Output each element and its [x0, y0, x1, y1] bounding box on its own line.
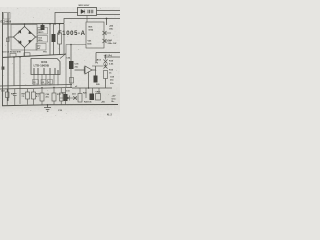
- resistor R08: [26, 92, 30, 99]
- capacitor C09: [64, 94, 68, 101]
- wire left rail: [2, 12, 4, 106]
- zener X2: [103, 39, 107, 43]
- node tap: [106, 19, 108, 26]
- pin label box P1: [33, 80, 39, 85]
- wire C01 leads: [53, 24, 55, 55]
- svg-text:EC3-KB8: EC3-KB8: [1, 21, 12, 24]
- svg-text:MR1 S.RLY: MR1 S.RLY: [79, 5, 91, 7]
- IC inner pin glyphs: [34, 68, 58, 75]
- relay box K1: [78, 8, 97, 16]
- resistor R18b: [104, 71, 108, 79]
- wire left rail 2: [7, 13, 9, 101]
- wire bridge taps: [8, 24, 38, 57]
- svg-text:+B1 (5x): +B1 (5x): [104, 55, 113, 57]
- resistor R15: [70, 78, 74, 84]
- resistor R12: [60, 93, 64, 101]
- resistor R07: [6, 92, 10, 98]
- wire diag: [60, 54, 66, 59]
- box VR1: [96, 94, 101, 101]
- svg-text:LTD-1905B: LTD-1905B: [34, 63, 50, 67]
- bus A: [0, 85, 72, 87]
- wire +B1 rail: [104, 56, 120, 58]
- stub X1: [104, 32, 111, 34]
- diode D1 in relay: [81, 10, 85, 14]
- zener X1: [103, 31, 107, 35]
- coil glyph: [88, 10, 93, 14]
- zener D08: [73, 96, 77, 100]
- scan speckles: [3, 8, 117, 116]
- wire out3: [64, 19, 120, 24]
- bridge enclosure: [11, 25, 37, 51]
- capacitor C04: [13, 89, 17, 106]
- resistor R09: [32, 92, 36, 99]
- text labels: [1, 5, 118, 117]
- paper background: [0, 0, 120, 120]
- wire cap branch: [49, 24, 51, 55]
- svg-text:4.5: 4.5: [42, 81, 45, 84]
- wire IC feed: [13, 57, 15, 86]
- wire drops3: [80, 88, 99, 98]
- wire drops2: [42, 88, 66, 105]
- svg-text:F1005-A: F1005-A: [58, 31, 86, 37]
- zener D05: [104, 60, 108, 64]
- ground: [44, 105, 51, 111]
- stub X2: [104, 40, 111, 42]
- wire +B rail: [96, 52, 120, 54]
- label box C03: [36, 44, 46, 51]
- wire out1: [97, 10, 121, 12]
- switch S02: [24, 53, 30, 57]
- capacitor C10: [90, 94, 95, 101]
- capacitor C01: [52, 34, 56, 42]
- label box D01: [38, 28, 48, 35]
- wire to relay: [55, 13, 78, 25]
- svg-text:VR01: VR01: [96, 92, 102, 94]
- wire zener: [105, 55, 107, 68]
- svg-text:/D02: /D02: [89, 29, 94, 31]
- capacitor C05: [69, 61, 74, 69]
- node dots: [13, 23, 89, 106]
- fuse F1: [41, 25, 45, 30]
- svg-text:CA2: CA2: [108, 39, 113, 42]
- bus B: [0, 88, 72, 90]
- diode D06: [65, 96, 69, 101]
- wire y63: [92, 65, 104, 67]
- capacitor C00 rail: [6, 38, 9, 42]
- pin label box P3: [48, 80, 53, 85]
- IC01 pins: [34, 75, 58, 86]
- pin label box P2: [41, 80, 46, 85]
- resistor R11: [52, 93, 56, 101]
- wire C08: [95, 66, 97, 76]
- wire C05: [70, 45, 72, 88]
- label box C02: [38, 36, 48, 43]
- svg-text:+B13: +B13: [96, 60, 102, 62]
- wire R18b: [105, 79, 107, 89]
- bottom bus: [2, 105, 118, 106]
- svg-text:K01 1.5 W S01 B/W: K01 1.5 W S01 B/W: [2, 52, 21, 54]
- wire drops: [7, 57, 33, 105]
- switch S01: [10, 53, 16, 57]
- diode marks: [18, 31, 31, 44]
- wire rail stub: [95, 53, 97, 64]
- svg-text:6.7: 6.7: [48, 82, 51, 84]
- IC01 box: [31, 59, 60, 75]
- svg-text:REC1: REC1: [38, 32, 44, 34]
- wire out2: [97, 14, 121, 16]
- wire relay to B01: [86, 16, 88, 23]
- wire left bottom bus: [2, 54, 66, 57]
- box B01: [86, 22, 104, 48]
- capacitor C02a rail blob: [2, 67, 5, 70]
- capacitor C08: [94, 76, 98, 83]
- resistor R10: [40, 93, 44, 101]
- resistor R01: [58, 33, 62, 44]
- svg-text:R24 10k: R24 10k: [84, 101, 92, 104]
- wire Q01: [75, 70, 97, 88]
- wire diode row: [60, 97, 77, 99]
- svg-text:+5V: +5V: [112, 96, 116, 98]
- wire R01 leads: [59, 24, 61, 55]
- connector J1: [4, 13, 11, 20]
- svg-text:4L-2: 4L-2: [107, 114, 112, 117]
- svg-text:220v 1W: 220v 1W: [108, 43, 118, 45]
- bridge rectifier D01: [14, 27, 36, 48]
- enclosure secondary: [66, 45, 86, 88]
- zener D05b: [104, 65, 108, 69]
- bus right: [72, 87, 112, 89]
- resistor R21: [78, 94, 82, 103]
- svg-text:1.2: 1.2: [33, 82, 36, 84]
- wire AC top: [3, 23, 65, 26]
- transistor Q01: [85, 66, 92, 74]
